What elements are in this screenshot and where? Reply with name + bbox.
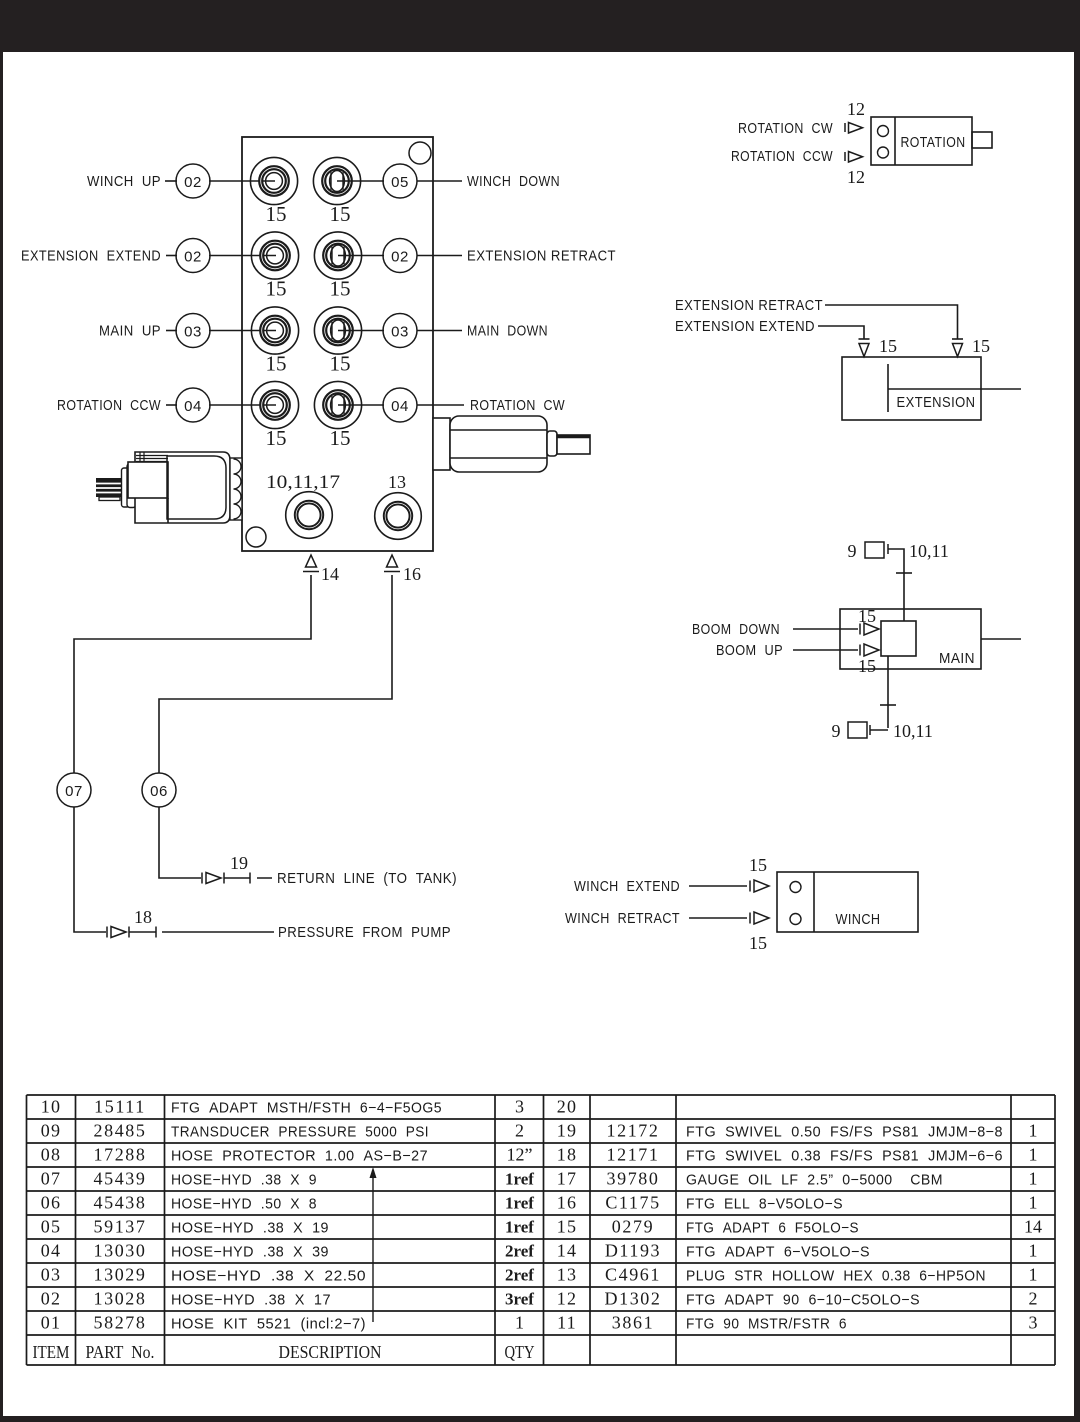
value 15 under extension-retract port	[330, 277, 351, 301]
label 9 bottom main	[832, 721, 841, 741]
winch motor box	[777, 872, 918, 932]
svg-text:ITEM: ITEM	[33, 1342, 70, 1362]
bolt hole bottom-left	[246, 527, 266, 547]
label WINCH DOWN	[467, 173, 560, 190]
wire extension retract to valve	[825, 305, 963, 339]
port P02 extension-retract	[314, 232, 362, 279]
label 12 bottom	[847, 167, 865, 187]
table row item 19	[557, 1121, 1038, 1141]
port P02 extension-extend	[251, 232, 298, 279]
check valve 18	[107, 927, 274, 938]
svg-text:1: 1	[1029, 1241, 1038, 1261]
label ROTATION CW	[470, 397, 565, 414]
svg-text:PLUG STR HOLLOW HEX 0.38: PLUG STR HOLLOW HEX 0.38 6−HP5ON	[686, 1268, 986, 1285]
label 10,11,17 gauge port	[266, 472, 340, 493]
svg-text:HOSE−HYD .38 X 19: HOSE−HYD .38 X 19	[171, 1220, 329, 1237]
svg-text:WINCH: WINCH	[836, 911, 881, 928]
label 18	[134, 907, 152, 927]
svg-text:MAIN UP: MAIN UP	[99, 323, 161, 340]
valve block body	[242, 137, 433, 551]
svg-text:15111: 15111	[94, 1097, 146, 1117]
svg-text:FTG ELL 8−V5OLO−S: FTG ELL 8−V5OLO−S	[686, 1196, 843, 1213]
svg-text:FTG ADAPT 90 6−10−C5OLO−S: FTG ADAPT 90 6−10−C5OLO−S	[686, 1292, 920, 1309]
value 15 under extension-extend port	[266, 277, 287, 301]
label EXTENSION RETRACT right	[675, 297, 823, 314]
svg-text:FTG ADAPT 6−V5OLO−S: FTG ADAPT 6−V5OLO−S	[686, 1244, 870, 1261]
svg-text:17: 17	[557, 1169, 577, 1189]
svg-text:10,11: 10,11	[893, 721, 933, 741]
svg-text:15: 15	[858, 606, 876, 626]
arrow winch retract	[750, 912, 769, 924]
arrow 16 below block	[384, 555, 400, 572]
label 14	[321, 564, 339, 584]
svg-text:12: 12	[847, 99, 865, 119]
label EXTENSION EXTEND	[21, 248, 161, 265]
left page border	[0, 52, 3, 1416]
label MAIN in box	[939, 650, 975, 667]
svg-text:BOOM UP: BOOM UP	[716, 642, 783, 659]
svg-text:HOSE−HYD .38 X 9: HOSE−HYD .38 X 9	[171, 1172, 317, 1189]
svg-text:15: 15	[330, 352, 351, 376]
value 15 under main-up port	[266, 352, 287, 376]
balloon 03 main-up	[176, 314, 210, 348]
orifice square top main	[865, 542, 888, 558]
port P04 rotation-cw	[314, 381, 362, 428]
svg-text:14: 14	[557, 1241, 577, 1261]
svg-text:13029: 13029	[94, 1265, 147, 1285]
extension cylinder box	[842, 357, 1021, 420]
top title bar	[0, 0, 1080, 52]
label 13 plug port	[388, 472, 406, 492]
arrow down retract	[953, 344, 963, 357]
svg-text:15: 15	[330, 277, 351, 301]
svg-text:FTG ADAPT MSTH/FSTH 6−4−F5O: FTG ADAPT MSTH/FSTH 6−4−F5OG5	[171, 1100, 442, 1117]
label RETURN LINE (TO TANK)	[277, 870, 457, 887]
svg-text:45439: 45439	[94, 1169, 147, 1189]
svg-text:HOSE−HYD .50 X 8: HOSE−HYD .50 X 8	[171, 1196, 317, 1213]
svg-text:EXTENSION EXTEND: EXTENSION EXTEND	[675, 318, 815, 335]
arrow boom down	[860, 623, 879, 635]
svg-text:03: 03	[391, 324, 409, 341]
balloon 04 rotation-cw	[383, 388, 417, 422]
table row item 06	[41, 1193, 535, 1213]
port P02 winch-up	[250, 157, 297, 204]
svg-text:FTG 90 MSTR/FSTR 6: FTG 90 MSTR/FSTR 6	[686, 1316, 847, 1333]
table row item 15	[557, 1217, 1042, 1237]
label 10,11 top main	[909, 541, 949, 561]
svg-text:39780: 39780	[607, 1169, 660, 1189]
table header row	[33, 1342, 535, 1362]
label EXTENSION EXTEND right	[675, 318, 815, 335]
svg-text:MAIN DOWN: MAIN DOWN	[467, 323, 548, 340]
svg-text:D1302: D1302	[605, 1289, 662, 1309]
svg-text:19: 19	[557, 1121, 577, 1141]
wire main box bottom	[880, 656, 896, 728]
svg-text:WINCH EXTEND: WINCH EXTEND	[574, 878, 680, 895]
label WINCH RETRACT	[565, 910, 680, 927]
value 15 under rotation-cw port	[330, 426, 351, 450]
wire orifice to main box	[888, 549, 912, 621]
arrow winch extend	[750, 880, 769, 892]
svg-text:10,11,17: 10,11,17	[266, 472, 340, 493]
port gauge 10,11,17	[286, 492, 333, 539]
svg-text:WINCH UP: WINCH UP	[87, 173, 161, 190]
table row item 05	[41, 1217, 535, 1237]
svg-text:WINCH DOWN: WINCH DOWN	[467, 173, 560, 190]
table row item 20	[557, 1097, 577, 1117]
port plug 13	[375, 493, 422, 540]
svg-text:FTG SWIVEL 0.50 FS/FS PS81: FTG SWIVEL 0.50 FS/FS PS81 JMJM−8−8	[686, 1124, 1003, 1141]
svg-text:ROTATION: ROTATION	[901, 134, 966, 151]
svg-text:2ref: 2ref	[505, 1242, 534, 1261]
svg-text:04: 04	[41, 1241, 61, 1261]
svg-text:ROTATION CCW: ROTATION CCW	[731, 148, 833, 165]
wire boom down	[793, 628, 858, 630]
svg-text:1: 1	[1029, 1121, 1038, 1141]
svg-text:9: 9	[832, 721, 841, 741]
port P03 main-down	[314, 307, 362, 354]
svg-text:1: 1	[1029, 1265, 1038, 1285]
svg-text:HOSE−HYD .38 X 39: HOSE−HYD .38 X 39	[171, 1244, 329, 1261]
label 12 top	[847, 99, 865, 119]
svg-text:15: 15	[266, 202, 287, 226]
svg-text:2ref: 2ref	[505, 1266, 534, 1285]
table row item 07	[41, 1169, 535, 1189]
label 15 extend	[879, 336, 897, 356]
svg-text:15: 15	[330, 202, 351, 226]
wire winch retract	[689, 917, 747, 919]
svg-text:04: 04	[184, 398, 202, 415]
value 15 under winch-up port	[266, 202, 287, 226]
balloon 07	[57, 773, 91, 807]
wire rotation-ccw leader	[166, 404, 276, 406]
table row item 02	[41, 1289, 535, 1309]
balloon 02 winch-up	[176, 164, 210, 198]
svg-text:15: 15	[266, 426, 287, 450]
wire winch-down leader	[361, 180, 462, 182]
svg-text:02: 02	[184, 174, 202, 191]
svg-text:EXTENSION RETRACT: EXTENSION RETRACT	[467, 248, 616, 265]
wire boom up	[793, 649, 858, 651]
arrow 14 below block	[303, 555, 319, 572]
svg-text:18: 18	[557, 1145, 577, 1165]
svg-text:1ref: 1ref	[505, 1218, 534, 1237]
svg-text:3: 3	[1029, 1313, 1038, 1333]
port P04 rotation-ccw	[251, 381, 298, 428]
svg-text:02: 02	[41, 1289, 61, 1309]
bolt hole top-right	[409, 142, 431, 164]
svg-text:FTG SWIVEL 0.38 FS/FS PS81: FTG SWIVEL 0.38 FS/FS PS81 JMJM−6−6	[686, 1148, 1003, 1165]
balloon 02 extension-retract	[383, 239, 417, 273]
main valve box	[840, 609, 981, 669]
label 16	[403, 564, 421, 584]
svg-text:1: 1	[515, 1313, 524, 1333]
svg-text:RETURN LINE (TO TANK): RETURN LINE (TO TANK)	[277, 870, 457, 887]
label PRESSURE FROM PUMP	[278, 924, 451, 941]
table row item 16	[557, 1193, 1038, 1213]
table row item 14	[557, 1241, 1038, 1261]
svg-text:C4961: C4961	[605, 1265, 661, 1285]
bottom page border	[0, 1416, 1080, 1422]
wire main box right	[981, 638, 1021, 640]
label ROTATION CCW	[57, 397, 161, 414]
svg-text:20: 20	[557, 1097, 577, 1117]
svg-text:15: 15	[972, 336, 990, 356]
svg-text:HOSE PROTECTOR 1.00 AS−B−27: HOSE PROTECTOR 1.00 AS−B−27	[171, 1148, 428, 1165]
svg-text:12”: 12”	[507, 1145, 533, 1165]
svg-text:12172: 12172	[607, 1121, 660, 1141]
right page border	[1074, 52, 1080, 1416]
svg-text:15: 15	[266, 277, 287, 301]
label 15 boom down	[858, 606, 876, 626]
svg-text:59137: 59137	[94, 1217, 147, 1237]
arrow down extend	[859, 344, 869, 357]
svg-text:10: 10	[41, 1097, 61, 1117]
svg-text:15: 15	[330, 426, 351, 450]
svg-text:12: 12	[557, 1289, 577, 1309]
svg-text:15: 15	[749, 855, 767, 875]
wire 07 to pressure line	[74, 807, 106, 932]
svg-text:45438: 45438	[94, 1193, 147, 1213]
svg-text:02: 02	[391, 249, 409, 266]
svg-text:EXTENSION RETRACT: EXTENSION RETRACT	[675, 297, 823, 314]
svg-text:16: 16	[557, 1193, 577, 1213]
svg-text:C1175: C1175	[605, 1193, 660, 1213]
svg-text:1ref: 1ref	[505, 1170, 534, 1189]
label 15 winch top	[749, 855, 767, 875]
wire rotation-cw leader	[362, 404, 464, 406]
svg-text:06: 06	[41, 1193, 61, 1213]
svg-text:06: 06	[150, 783, 168, 800]
svg-text:GAUGE OIL LF 2.5” 0−5000: GAUGE OIL LF 2.5” 0−5000 CBM	[686, 1172, 943, 1189]
table row item 12	[557, 1289, 1038, 1309]
svg-text:58278: 58278	[94, 1313, 147, 1333]
label WINCH UP	[87, 173, 161, 190]
port P03 main-up	[251, 307, 298, 354]
svg-text:14: 14	[1024, 1217, 1042, 1237]
value 15 under rotation-ccw port	[266, 426, 287, 450]
svg-text:1ref: 1ref	[505, 1194, 534, 1213]
svg-text:FTG ADAPT 6 F5OLO−S: FTG ADAPT 6 F5OLO−S	[686, 1220, 859, 1237]
svg-text:3: 3	[515, 1097, 524, 1117]
wire extension-retract leader	[362, 255, 462, 257]
label ROTATION in box	[901, 134, 966, 151]
svg-text:HOSE−HYD .38 X 17: HOSE−HYD .38 X 17	[171, 1292, 331, 1309]
svg-text:03: 03	[41, 1265, 61, 1285]
table row item 18	[557, 1145, 1038, 1165]
label 9 top main	[848, 541, 857, 561]
check valve 19	[202, 873, 272, 884]
svg-text:03: 03	[184, 324, 202, 341]
label MAIN DOWN	[467, 323, 548, 340]
svg-text:15: 15	[266, 352, 287, 376]
svg-text:3ref: 3ref	[505, 1290, 534, 1309]
table row item 13	[557, 1265, 1038, 1285]
svg-text:PART No.: PART No.	[86, 1342, 155, 1362]
svg-text:09: 09	[41, 1121, 61, 1141]
label 15 retract	[972, 336, 990, 356]
value 15 under winch-down port	[330, 202, 351, 226]
svg-text:15: 15	[557, 1217, 577, 1237]
label 15 winch bottom	[749, 933, 767, 953]
svg-text:0279: 0279	[612, 1217, 654, 1237]
arrow into rotation ccw	[845, 152, 863, 163]
balloon 03 main-down	[383, 314, 417, 348]
svg-text:10,11: 10,11	[909, 541, 949, 561]
svg-text:HOSE−HYD .38 X 22.50: HOSE−HYD .38 X 22.50	[171, 1268, 366, 1285]
wire extension extend to valve	[818, 326, 870, 339]
svg-text:01: 01	[41, 1313, 61, 1333]
label ROTATION CCW top right	[731, 148, 833, 165]
svg-text:HOSE KIT 5521 (incl:2−7): HOSE KIT 5521 (incl:2−7)	[171, 1316, 366, 1333]
label 15 boom up	[858, 656, 876, 676]
arrow into rotation cw	[845, 123, 863, 134]
svg-text:1: 1	[1029, 1145, 1038, 1165]
svg-text:11: 11	[557, 1313, 577, 1333]
svg-text:1: 1	[1029, 1169, 1038, 1189]
table row item 09	[41, 1121, 524, 1141]
svg-text:15: 15	[858, 656, 876, 676]
svg-text:05: 05	[391, 174, 409, 191]
wire main-down leader	[362, 330, 462, 332]
svg-text:EXTENSION EXTEND: EXTENSION EXTEND	[21, 248, 161, 265]
wire port14 to circle 07	[74, 575, 311, 773]
svg-text:ROTATION CW: ROTATION CW	[470, 397, 565, 414]
table row item 08	[41, 1145, 533, 1165]
arrow boom up	[860, 644, 879, 656]
wire extension-extend leader	[166, 255, 276, 257]
svg-text:13: 13	[557, 1265, 577, 1285]
svg-text:2: 2	[1029, 1289, 1038, 1309]
table row item 10	[41, 1097, 524, 1117]
label MAIN UP	[99, 323, 161, 340]
label 19	[230, 853, 248, 873]
svg-text:1: 1	[1029, 1193, 1038, 1213]
svg-text:17288: 17288	[94, 1145, 147, 1165]
svg-text:TRANSDUCER PRESSURE 5000 PS: TRANSDUCER PRESSURE 5000 PSI	[171, 1124, 429, 1141]
orifice square bottom main	[848, 722, 888, 738]
table row item 03	[41, 1265, 535, 1285]
wire main-up leader	[166, 330, 276, 332]
svg-text:2: 2	[515, 1121, 524, 1141]
svg-text:WINCH RETRACT: WINCH RETRACT	[565, 910, 680, 927]
svg-text:16: 16	[403, 564, 421, 584]
svg-text:08: 08	[41, 1145, 61, 1165]
pump transducer assembly	[96, 452, 242, 523]
svg-text:02: 02	[184, 249, 202, 266]
label WINCH EXTEND	[574, 878, 680, 895]
balloon 06	[142, 773, 176, 807]
label 10,11 bottom main	[893, 721, 933, 741]
table row item 17	[557, 1169, 1038, 1189]
svg-text:EXTENSION: EXTENSION	[897, 394, 976, 411]
svg-text:13: 13	[388, 472, 406, 492]
hose kit include arrow	[370, 1167, 377, 1322]
label WINCH in box	[836, 911, 881, 928]
wire port16 to circle 06	[159, 575, 392, 773]
wire winch extend	[689, 885, 747, 887]
label ROTATION CW top right	[738, 120, 833, 137]
svg-text:07: 07	[41, 1169, 61, 1189]
table row item 11	[557, 1313, 1037, 1333]
balloon 05 winch-down	[383, 164, 417, 198]
table row item 04	[41, 1241, 535, 1261]
svg-text:PRESSURE FROM PUMP: PRESSURE FROM PUMP	[278, 924, 451, 941]
svg-text:3861: 3861	[612, 1313, 654, 1333]
svg-text:12171: 12171	[607, 1145, 660, 1165]
label BOOM DOWN	[692, 621, 780, 638]
svg-text:07: 07	[65, 783, 83, 800]
value 15 under main-down port	[330, 352, 351, 376]
label BOOM UP	[716, 642, 783, 659]
balloon 02 extension-extend	[176, 239, 210, 273]
svg-text:28485: 28485	[94, 1121, 147, 1141]
balloon 04 rotation-ccw	[176, 388, 210, 422]
svg-text:18: 18	[134, 907, 152, 927]
wire 06 to return line	[159, 807, 201, 878]
svg-text:15: 15	[879, 336, 897, 356]
svg-text:QTY: QTY	[505, 1342, 535, 1362]
label EXTENSION in box	[897, 394, 976, 411]
svg-text:12: 12	[847, 167, 865, 187]
svg-text:14: 14	[321, 564, 339, 584]
table row item 01	[41, 1313, 524, 1333]
svg-text:MAIN: MAIN	[939, 650, 975, 667]
svg-text:13030: 13030	[94, 1241, 147, 1261]
svg-text:ROTATION CW: ROTATION CW	[738, 120, 833, 137]
svg-text:04: 04	[391, 398, 409, 415]
svg-text:BOOM DOWN: BOOM DOWN	[692, 621, 780, 638]
svg-text:9: 9	[848, 541, 857, 561]
wire winch-up leader	[165, 180, 275, 182]
parts table grid	[27, 1095, 1056, 1365]
fitting hex coupling right	[433, 416, 590, 472]
svg-text:19: 19	[230, 853, 248, 873]
svg-text:13028: 13028	[94, 1289, 147, 1309]
svg-text:15: 15	[749, 933, 767, 953]
svg-text:D1193: D1193	[605, 1241, 661, 1261]
rotation motor box	[871, 117, 992, 165]
label EXTENSION RETRACT	[467, 248, 616, 265]
port P05 winch-down	[313, 157, 361, 204]
svg-text:DESCRIPTION: DESCRIPTION	[279, 1342, 382, 1362]
svg-text:ROTATION CCW: ROTATION CCW	[57, 397, 161, 414]
svg-text:05: 05	[41, 1217, 61, 1237]
